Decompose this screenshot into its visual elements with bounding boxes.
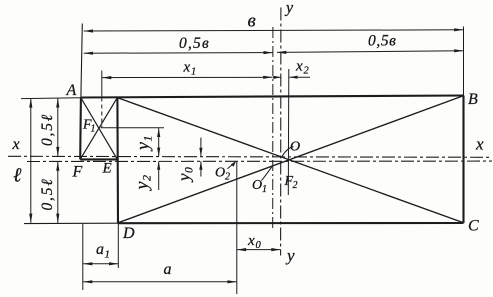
small rectangle diagonal F-corner (80, 98, 117, 159)
right edge B-C (462, 96, 464, 224)
flange bottom edge F-E (80, 158, 117, 160)
arrowhead y2 (157, 161, 160, 170)
leader arrow to O2 (228, 162, 236, 169)
x axis (dash-dot) (8, 156, 492, 157)
svg-text:C: C (468, 218, 479, 235)
svg-text:y: y (285, 246, 295, 265)
dimension a line (83, 281, 237, 283)
dimension 0,5b left line (84, 52, 273, 55)
arrowheads x0 (237, 248, 246, 251)
svg-text:x: x (295, 59, 303, 75)
arrowheads 0,5b right (277, 51, 286, 54)
svg-text:y2: y2 (132, 175, 154, 192)
big rectangle diagonal to C (118, 98, 464, 223)
extension line right edge top (for b) (463, 27, 465, 96)
arrowheads x2 (273, 76, 281, 79)
dimension 0,5L lower line (57, 161, 59, 223)
dimension x1 line (102, 76, 273, 78)
svg-text:y1: y1 (133, 136, 155, 153)
svg-text:0,5ℓ: 0,5ℓ (39, 113, 56, 146)
arrowheads y1 (157, 128, 160, 137)
parallel axis through F2 (dash-dot) (27, 160, 492, 162)
svg-text:x: x (183, 60, 191, 76)
svg-text:y: y (284, 0, 294, 17)
arrowheads a (83, 280, 92, 283)
svg-text:B: B (468, 91, 478, 108)
dimension 0,5L upper line (57, 98, 59, 156)
dimension a1 line (83, 263, 118, 265)
dimension L line (30, 98, 32, 223)
small rectangle diagonal A-E (81, 98, 117, 159)
svg-text:O: O (252, 178, 262, 193)
svg-text:ℓ: ℓ (13, 165, 22, 187)
arrowheads 0,5b left (84, 52, 93, 55)
svg-text:1: 1 (262, 184, 267, 195)
svg-text:0,5ℓ: 0,5ℓ (39, 177, 56, 210)
svg-text:1: 1 (105, 249, 111, 261)
arrowheads dimension b (84, 29, 93, 32)
arrowheads 0,5L upper (56, 98, 59, 107)
svg-text:D: D (122, 225, 135, 242)
bottom edge D-C (118, 222, 464, 224)
arrowheads a1 (83, 262, 92, 265)
extension line left edge bottom (for a, a1) (82, 224, 84, 291)
web line E-D (116, 98, 119, 224)
bottom extension line (left of D) (24, 222, 118, 224)
dimension 0,5b right line (277, 51, 464, 53)
dimension y2 arrow stem (158, 161, 160, 190)
extension line below D (for a1) (117, 223, 119, 268)
auxiliary vertical line through O1 (272, 27, 274, 228)
arrowheads 0,5L lower (56, 161, 59, 170)
leader to O (282, 147, 294, 157)
svg-text:x: x (247, 233, 255, 249)
arrowheads x1 (102, 76, 111, 79)
arrowheads L (29, 98, 32, 107)
extension line through O2 (236, 161, 238, 294)
top edge A-B (81, 96, 464, 98)
y axis (dash-dot vertical) (280, 8, 282, 256)
svg-text:2: 2 (225, 172, 230, 183)
svg-text:0: 0 (256, 240, 262, 251)
dimension x2 arrow stems (273, 76, 281, 78)
svg-text:в: в (248, 11, 256, 32)
svg-text:1: 1 (91, 124, 96, 135)
svg-text:E: E (102, 161, 112, 177)
dimension b line (84, 30, 464, 31)
svg-text:y0: y0 (175, 167, 196, 183)
svg-text:2: 2 (304, 66, 310, 77)
big rectangle diagonal D-B (118, 96, 463, 223)
svg-text:1: 1 (191, 67, 196, 78)
svg-text:0,5в: 0,5в (179, 35, 210, 52)
svg-text:a: a (164, 261, 172, 278)
svg-text:x: x (475, 135, 484, 154)
left edge A-F with top extension (81, 24, 82, 98)
dimension y1 line (158, 128, 160, 156)
svg-text:O: O (290, 140, 300, 155)
arrowhead leader O2 (231, 161, 236, 166)
svg-text:F: F (72, 164, 83, 181)
svg-text:0,5в: 0,5в (368, 33, 397, 50)
svg-text:2: 2 (293, 180, 298, 191)
extension line top-left (for L dims) (21, 97, 81, 100)
vertical line through F2 (287, 69, 290, 195)
svg-text:A: A (66, 82, 77, 99)
svg-text:O: O (215, 166, 225, 181)
dimension x0 line (237, 249, 281, 251)
svg-text:a: a (96, 241, 104, 258)
horizontal line through F1 (for y1) (101, 127, 165, 129)
leader to O1 (262, 167, 272, 181)
svg-text:x: x (12, 136, 20, 153)
dimension y0 arrow stems (200, 138, 202, 157)
arrowheads y0 (199, 148, 202, 157)
extension line through F1 (vertical, for x1) (101, 71, 103, 98)
